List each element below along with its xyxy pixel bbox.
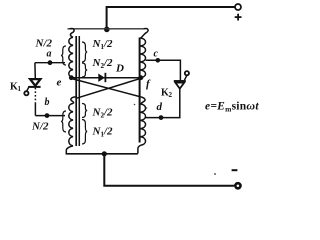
brace left N/2 bottom	[61, 111, 66, 132]
node c junction dot	[156, 58, 161, 63]
svg-text:e: e	[57, 77, 62, 89]
node e junction dot	[69, 75, 74, 80]
winding left lower coil (N2/2 + N1/2)	[69, 103, 73, 145]
node d junction dot	[159, 115, 164, 120]
node f junction dot	[139, 75, 144, 80]
terminal plus (positive output)	[235, 4, 241, 10]
svg-text:N/2: N/2	[35, 38, 53, 50]
svg-text:c: c	[154, 49, 159, 60]
label +	[235, 14, 242, 21]
node b junction dot	[45, 113, 50, 118]
core left reactor line 2	[78, 36, 80, 146]
speckle	[214, 173, 216, 175]
thyristor K1 cathode bar	[28, 86, 40, 88]
speckle	[146, 107, 148, 109]
left coil bottom hook	[66, 146, 73, 154]
wire inner bottom rail	[66, 153, 138, 155]
thyristor K1 triangle	[30, 79, 40, 86]
lower-left winding top hook	[71, 97, 76, 104]
wire top output	[107, 7, 235, 28]
svg-text:b: b	[45, 97, 50, 108]
core left reactor line 1	[75, 36, 77, 146]
thyristor K2 triangle	[175, 83, 184, 89]
left upper winding top hook	[70, 29, 75, 38]
brace right N1/2 upper	[82, 42, 87, 62]
svg-text:2: 2	[169, 91, 173, 99]
wire K2 cathode to node d	[146, 89, 180, 118]
wire bottom output	[104, 154, 234, 186]
svg-text:d: d	[157, 101, 163, 113]
brace right N1/2 lower	[82, 120, 87, 145]
brace right N2/2 upper	[82, 63, 87, 77]
wire node a	[35, 62, 65, 64]
right upper winding top hook	[141, 29, 148, 38]
right coil bottom hook	[138, 145, 141, 153]
wire crossover diagonal e to lower-right winding	[72, 79, 140, 97]
speckle	[134, 104, 136, 106]
thyristor K1 cathode wire lower	[34, 103, 36, 116]
brace right N2/2 lower	[82, 104, 87, 118]
winding right upper coil	[141, 38, 146, 78]
terminal minus (negative output)	[234, 182, 242, 190]
core right reactor line	[139, 38, 141, 143]
thyristor K1 gate lead	[27, 88, 29, 91]
wire node b	[35, 115, 65, 117]
thyristor K1 gate terminal ring	[24, 91, 28, 95]
thyristor K2 cathode bar	[174, 80, 186, 82]
thyristor K2 gate terminal ring	[185, 71, 189, 75]
node a junction dot	[48, 60, 53, 65]
winding left upper coil (N1/2 + N2/2)	[69, 37, 73, 77]
svg-text:1: 1	[18, 85, 22, 93]
label minus	[232, 169, 238, 171]
thyristor K2 gate lead	[183, 75, 187, 82]
diode D	[98, 73, 105, 82]
svg-text:N/2: N/2	[31, 121, 49, 133]
thyristor K1 cathode wire (dotted section)	[34, 88, 36, 103]
svg-text:a: a	[47, 49, 52, 60]
winding right lower coil	[141, 104, 146, 145]
wire inner top rail	[68, 28, 145, 30]
wire crossover diagonal f to lower-left winding	[76, 78, 141, 98]
junction dot top center	[104, 27, 110, 33]
thyristor K1 anode wire	[34, 63, 36, 78]
svg-text:D: D	[115, 63, 124, 75]
wire diode branch from e to f	[71, 77, 141, 79]
junction dot bottom center	[102, 151, 107, 156]
svg-text:e=Emsinωt: e=Emsinωt	[205, 99, 259, 114]
brace left N/2 top	[61, 46, 66, 65]
lower-right winding top hook	[139, 97, 145, 105]
wire tap c to K2	[146, 60, 181, 81]
